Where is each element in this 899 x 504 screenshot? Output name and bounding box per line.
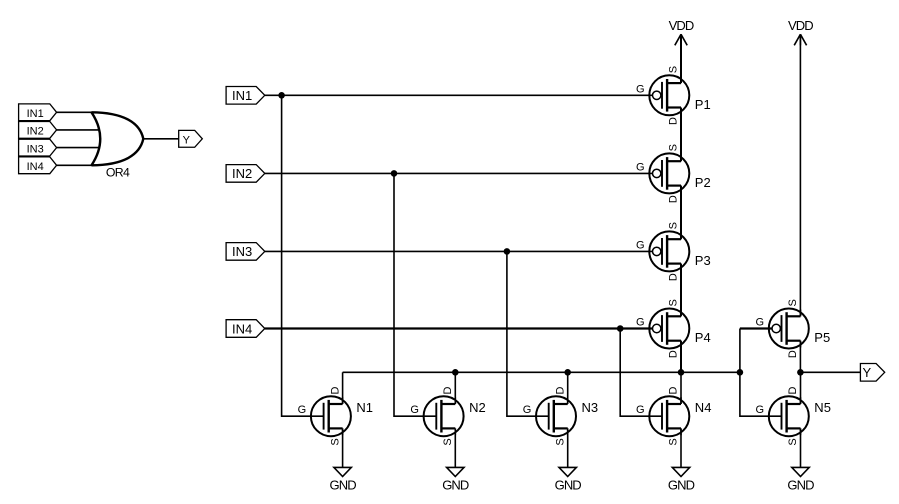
svg-text:D: D (668, 386, 680, 394)
svg-text:S: S (668, 299, 680, 306)
svg-text:P2: P2 (695, 175, 711, 190)
svg-text:D: D (668, 273, 680, 281)
svg-text:D: D (668, 117, 680, 125)
transistor P1 (PMOS) (636, 66, 711, 125)
wire IN2 to OR4 pin 2 (57, 129, 100, 131)
svg-text:S: S (442, 438, 454, 445)
wire IN3 to OR4 pin 3 (57, 147, 100, 149)
svg-text:Y: Y (183, 135, 191, 147)
svg-text:D: D (329, 386, 341, 394)
wire N2 source down to GND (454, 428, 456, 467)
global label Y (schematic output) (860, 364, 884, 382)
svg-text:S: S (668, 66, 680, 73)
global label IN2 (OR4 symbol input) (19, 122, 57, 139)
wire P5 drain to Y node (799, 341, 801, 373)
svg-text:G: G (636, 161, 645, 173)
wire IN3 bus down to N3 gate (507, 251, 549, 416)
global label IN4 (OR4 symbol input) (19, 157, 57, 174)
wire NOR output rail (343, 371, 740, 373)
P3 symbol body (649, 231, 689, 271)
wire P2 drain to P3 source (680, 186, 682, 240)
svg-text:Y: Y (862, 365, 871, 380)
wire IN2 bus down to N2 gate (394, 173, 436, 416)
wire VDD to P1 source (680, 34, 682, 83)
wire rail branch up to P5 gate (739, 329, 741, 373)
power symbol VDD (inverter) (788, 18, 813, 45)
svg-text:P5: P5 (814, 330, 830, 345)
global label IN3 (OR4 symbol input) (19, 139, 57, 156)
svg-text:S: S (329, 438, 341, 445)
node IN4 junction (617, 325, 624, 332)
global label IN1 (OR4 symbol input) (19, 104, 57, 121)
node rail / inverter gate branch junction (737, 369, 744, 376)
svg-text:OR4: OR4 (106, 166, 130, 180)
svg-text:S: S (668, 438, 680, 445)
global label IN1 (transistor schematic input) (226, 87, 265, 105)
wire P1 drain to P2 source (680, 108, 682, 162)
svg-text:IN4: IN4 (27, 161, 44, 173)
svg-text:G: G (636, 239, 645, 251)
wire N2 drain up to output rail (454, 372, 456, 404)
svg-text:IN3: IN3 (27, 143, 44, 155)
svg-text:IN4: IN4 (232, 321, 252, 336)
wire N3 drain up to output rail (567, 372, 569, 404)
wire Y node to Y output label (800, 371, 860, 373)
svg-text:D: D (668, 350, 680, 358)
svg-text:N5: N5 (814, 400, 831, 415)
wire IN1 to OR4 pin 1 (57, 111, 92, 113)
wire IN2 row to P2 gate (265, 172, 653, 174)
wire N5 source down to GND (800, 428, 802, 467)
wire IN4 to OR4 pin 4 (57, 164, 92, 166)
node IN3 junction (504, 248, 511, 255)
wire IN4 bus down to N4 gate (620, 329, 662, 417)
transistor P5 (PMOS) (756, 299, 831, 358)
wire N4 source down to GND (680, 428, 682, 467)
transistor P2 (PMOS) (636, 144, 711, 203)
OR gate OR4 (logic symbol) (92, 112, 144, 179)
transistor N5 (NMOS) (756, 386, 831, 445)
wire IN3 row to P3 gate (265, 250, 653, 252)
svg-text:S: S (668, 222, 680, 229)
svg-text:P3: P3 (695, 253, 711, 268)
svg-text:IN3: IN3 (232, 244, 252, 259)
svg-text:G: G (636, 317, 645, 329)
wire N1 drain up to output rail (342, 372, 344, 404)
N5 symbol body (769, 396, 809, 436)
wire N4 drain up to output rail (680, 372, 682, 404)
svg-text:IN2: IN2 (232, 166, 252, 181)
N2 symbol body (424, 396, 464, 436)
svg-text:N1: N1 (356, 400, 373, 415)
svg-text:D: D (787, 386, 799, 394)
wire IN1 row to P1 gate (265, 94, 653, 96)
node IN2 junction (391, 170, 398, 177)
svg-text:IN1: IN1 (232, 88, 252, 103)
wire rail branch down to N5 gate (740, 372, 782, 416)
ground symbol GND below N3 (555, 467, 582, 492)
node IN1 junction (278, 92, 285, 99)
svg-text:D: D (442, 386, 454, 394)
global label IN2 (transistor schematic input) (226, 165, 265, 183)
svg-text:G: G (756, 317, 765, 329)
svg-text:S: S (787, 438, 799, 445)
node rail / P4-N4 drain junction (678, 369, 685, 376)
N4 symbol body (649, 396, 689, 436)
node rail / N3 drain junction (564, 369, 571, 376)
P2 symbol body (649, 153, 689, 193)
transistor N2 (NMOS) (410, 386, 485, 445)
svg-text:D: D (554, 386, 566, 394)
svg-text:S: S (554, 438, 566, 445)
power symbol VDD (pull-up chain) (669, 18, 694, 45)
svg-text:P4: P4 (695, 330, 711, 345)
wire N3 source down to GND (567, 428, 569, 467)
transistor P3 (PMOS) (636, 222, 711, 281)
svg-text:G: G (636, 404, 645, 416)
svg-text:N3: N3 (582, 400, 599, 415)
svg-text:G: G (756, 404, 765, 416)
global label IN4 (transistor schematic input) (226, 320, 265, 338)
N3 symbol body (536, 396, 576, 436)
svg-text:N2: N2 (469, 400, 486, 415)
svg-text:D: D (668, 195, 680, 203)
N1 symbol body (311, 396, 351, 436)
wire P4 drain to NOR output rail (680, 341, 682, 373)
svg-text:IN2: IN2 (27, 126, 44, 138)
node Y / P5-N5 drain junction (797, 369, 804, 376)
P1 symbol body (649, 75, 689, 115)
transistor N1 (NMOS) (298, 386, 373, 445)
svg-text:IN1: IN1 (27, 108, 44, 120)
ground symbol GND below N4 (668, 467, 695, 492)
wire IN1 bus down to N1 gate (282, 95, 324, 416)
svg-text:G: G (636, 83, 645, 95)
svg-text:G: G (298, 404, 307, 416)
wire N5 drain up to output rail (800, 372, 802, 404)
ground symbol GND below N2 (442, 467, 469, 492)
wire OR4 output to Y label (143, 138, 178, 140)
transistor N4 (NMOS) (636, 386, 711, 445)
ground symbol GND below N1 (329, 467, 356, 492)
wire VDD to P5 source (799, 34, 801, 316)
wire IN4 row to P4 gate (265, 327, 653, 329)
node rail / N2 drain junction (452, 369, 459, 376)
global label Y (OR4 symbol output) (179, 130, 203, 147)
svg-text:D: D (787, 350, 799, 358)
wire P3 drain to P4 source (680, 264, 682, 317)
wire branch to P5 gate (740, 327, 772, 329)
transistor P4 (PMOS) (636, 299, 711, 358)
P4 symbol body (649, 309, 689, 349)
svg-text:G: G (410, 404, 419, 416)
ground symbol GND below N5 (787, 467, 814, 492)
svg-text:N4: N4 (695, 400, 712, 415)
svg-text:S: S (668, 144, 680, 151)
transistor N3 (NMOS) (523, 386, 598, 445)
svg-text:P1: P1 (695, 97, 711, 112)
P5 symbol body (769, 309, 809, 349)
svg-text:S: S (787, 299, 799, 306)
global label IN3 (transistor schematic input) (226, 243, 265, 261)
wire N1 source down to GND (342, 428, 344, 467)
svg-text:G: G (523, 404, 532, 416)
